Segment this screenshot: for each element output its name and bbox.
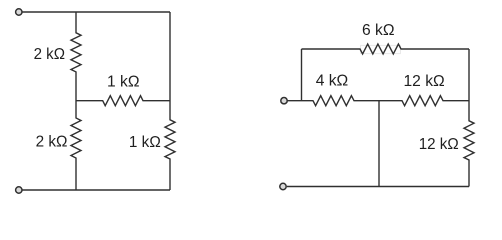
svg-text:1 kΩ: 1 kΩ	[107, 73, 140, 90]
svg-text:12 kΩ: 12 kΩ	[419, 136, 459, 153]
svg-text:1 kΩ: 1 kΩ	[129, 134, 161, 151]
svg-text:2 kΩ: 2 kΩ	[36, 133, 68, 150]
svg-text:4 kΩ: 4 kΩ	[316, 73, 349, 90]
svg-text:6 kΩ: 6 kΩ	[362, 22, 395, 39]
svg-text:12 kΩ: 12 kΩ	[404, 73, 445, 90]
svg-text:2 kΩ: 2 kΩ	[34, 46, 65, 63]
